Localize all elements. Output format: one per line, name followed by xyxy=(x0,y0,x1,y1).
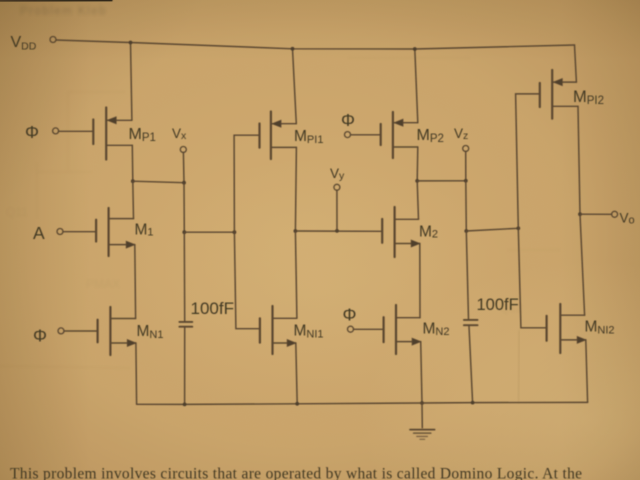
wire Vx to capacitor C1 xyxy=(183,232,185,321)
wire MP1 source to VDD xyxy=(131,43,132,121)
wire C1 to ground rail xyxy=(184,328,186,405)
transistor M2 xyxy=(382,207,420,257)
node A terminal xyxy=(57,229,63,235)
node VDD junction MP1 xyxy=(129,41,133,45)
wire M1 drain up xyxy=(132,181,135,218)
heading underline bar (top-left) xyxy=(0,0,112,2)
node Vy stub junction xyxy=(335,229,339,233)
wire MP2 drain down xyxy=(416,147,419,181)
wire MNI1 gate lead xyxy=(234,232,260,329)
transistor MNI2 xyxy=(547,304,586,353)
node VDD junction MP2 xyxy=(413,47,417,51)
faint bleed-through marks xyxy=(0,58,560,368)
transistor MP2 xyxy=(351,112,418,158)
wire M2 drain up xyxy=(417,181,418,219)
wire Vy stub xyxy=(336,190,338,231)
wire C2 to ground rail xyxy=(469,326,473,402)
node Vz junction xyxy=(415,179,419,183)
transistor M1 xyxy=(63,208,135,256)
wire MNI2 source to ground rail xyxy=(586,340,588,403)
node Vy terminal xyxy=(334,184,340,190)
node Vo terminal xyxy=(612,211,618,217)
transistor MPI1 xyxy=(260,112,297,160)
wire Vz horizontal xyxy=(417,180,466,182)
wire MNI2 gate lead xyxy=(518,228,546,327)
wire MPI2 drain down to Vo xyxy=(578,106,580,214)
node Vz junction 3 xyxy=(464,229,468,233)
node Vz junction 2 xyxy=(464,179,468,183)
wire ground rail xyxy=(137,402,588,404)
node rail junction C1 xyxy=(183,403,187,407)
wire MNI1 source to ground rail xyxy=(296,343,297,404)
node phi3 terminal xyxy=(345,132,351,138)
node Vz terminal xyxy=(463,146,469,152)
wire VDD rail xyxy=(56,40,575,49)
wire MPI2 source to VDD xyxy=(575,45,577,82)
wire MN2 source to ground xyxy=(421,342,422,403)
wire Vz stub xyxy=(465,151,467,180)
wire M1 source to MN1 drain xyxy=(134,245,137,319)
node ground junction xyxy=(420,401,424,405)
wire MP1 drain to Vx xyxy=(133,181,184,183)
node Vx terminal xyxy=(180,147,186,153)
wire MN1 source to ground rail xyxy=(135,343,138,404)
node gate junction xyxy=(233,230,237,234)
wire Vx stub xyxy=(182,152,185,182)
node phi1 terminal xyxy=(53,128,59,134)
node MPI2 gate junction xyxy=(516,226,520,230)
capacitor C2 100fF xyxy=(464,320,478,325)
node phi4 terminal xyxy=(348,326,354,332)
node rail junction MNI1 xyxy=(295,402,299,406)
node Vo junction xyxy=(578,212,582,216)
transistor MP1 xyxy=(58,108,132,160)
transistor MN1 xyxy=(64,307,136,355)
wire Vx down xyxy=(183,183,185,233)
capacitor C1 100fF xyxy=(179,322,192,327)
wire MPI1 source to VDD xyxy=(293,49,297,124)
node Vx junction at MP1 drain xyxy=(131,179,135,183)
node rail junction C2 xyxy=(471,401,475,405)
node Vx junction xyxy=(182,181,186,185)
node VDD junction MPI1 xyxy=(291,47,295,51)
wire MP1 drain down xyxy=(131,145,134,181)
wire Vo lead xyxy=(580,213,612,215)
wire Vy to M2 gate xyxy=(295,230,382,232)
ground xyxy=(410,403,435,439)
wire MP2 source to VDD xyxy=(415,49,418,123)
wire Vz down xyxy=(465,181,468,231)
node VDD terminal xyxy=(50,37,56,43)
transistor MNI1 xyxy=(260,306,297,354)
transistor MN2 xyxy=(354,305,421,354)
wire Vx to inverter gates xyxy=(184,231,234,233)
node phi2 terminal xyxy=(58,328,64,334)
node Vy junction xyxy=(294,229,298,233)
wire MPI1 drain down to Vy xyxy=(295,147,296,231)
wire MPI1 gate lead xyxy=(234,135,259,232)
wire Vz to capacitor C2 xyxy=(466,231,468,319)
wire MPI2 gate lead xyxy=(516,94,540,228)
wire MNI2 drain up xyxy=(580,214,585,315)
schematic ink xyxy=(50,37,618,440)
transistor MPI2 xyxy=(540,70,578,119)
node Vx junction 2 xyxy=(182,230,186,234)
wire MNI1 drain up to Vy xyxy=(295,231,297,318)
wire M2 source to MN2 drain xyxy=(419,244,421,318)
wire Vz to MPI2 gate xyxy=(466,228,518,231)
